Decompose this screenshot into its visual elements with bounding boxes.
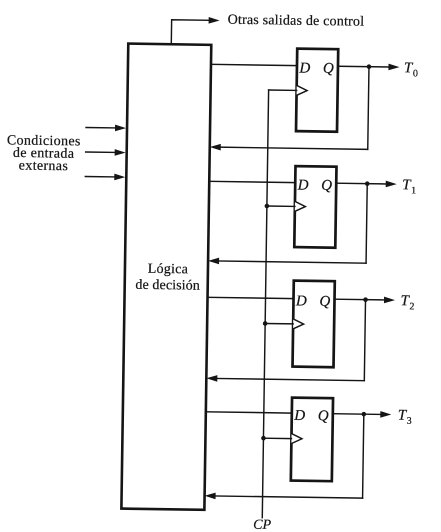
node CP tap FF2 [265,204,270,209]
wire control output elbow [171,20,210,45]
wire D2 input [209,181,295,182]
wire Q4 output [333,413,381,416]
arrowhead feedback 4 [205,492,216,499]
arrowhead T1 [386,181,397,188]
flip-flop FF2 [294,166,336,248]
decision logic block U1 [121,44,211,510]
arrowhead feedback 2 [208,258,219,265]
wire external input 1 [86,126,116,128]
arrowhead T3 [380,411,391,418]
node Q2 junction [365,181,370,186]
node Q4 junction [361,412,366,417]
arrowhead feedback 1 [210,144,221,151]
wire CP to FF2 [267,205,295,207]
svg-text:Q: Q [323,61,334,77]
node CP tap FF3 [263,321,268,326]
wire CP to FF4 [263,437,291,439]
node CP tap FF4 [261,436,266,441]
arrowhead T0 [388,64,399,71]
wire D4 input [206,412,292,413]
arrowhead input 2 [115,149,126,156]
svg-text:Q: Q [321,178,332,194]
wire Q1 output [338,65,389,68]
wire Q3 output [335,298,385,301]
flip-flop FF4 [291,398,333,482]
arrowhead feedback 3 [206,375,217,382]
svg-text:0: 0 [413,68,418,79]
arrowhead input 1 [115,125,126,132]
label Condiciones de entrada externas [6,133,80,174]
svg-text:Otras salidas de control: Otras salidas de control [228,13,365,30]
wire Q2 feedback horizontal [217,261,366,263]
node Q3 junction [363,297,368,302]
wire Q1 feedback vertical [368,67,369,150]
wire Q4 feedback vertical [363,414,364,498]
arrowhead input 3 [114,174,125,181]
label Lógica de decisión [135,262,200,294]
wire external input 2 [86,151,116,153]
arrowhead T2 [384,297,395,304]
svg-text:D: D [293,408,305,424]
arrowhead control output [209,17,220,24]
flip-flop FF3 [293,281,335,368]
wire Q2 output [336,182,386,185]
svg-text:Q: Q [318,408,329,424]
wire Q1 feedback horizontal [219,147,368,149]
wire Q3 feedback horizontal [215,378,364,380]
label T1 [402,177,416,196]
label T0 [404,60,418,79]
svg-text:Lógica: Lógica [148,262,189,278]
svg-text:2: 2 [409,301,414,312]
svg-text:Q: Q [319,294,330,310]
wire D1 input [211,64,297,65]
node Q1 junction [367,64,372,69]
wire external input 3 [85,175,115,177]
wire Q2 feedback vertical [366,184,367,263]
svg-text:D: D [295,293,307,309]
svg-text:externas: externas [19,159,69,175]
svg-text:3: 3 [407,416,412,427]
svg-text:D: D [297,177,309,193]
svg-text:D: D [298,60,310,76]
wire CP to FF3 [265,322,293,324]
flip-flop FF1 [296,49,338,132]
label T2 [400,293,414,312]
svg-text:de decisión: de decisión [135,278,200,294]
wire D3 input [208,297,294,298]
svg-text:CP: CP [253,518,272,532]
label T3 [398,408,412,427]
wire CP to FF1 [269,89,297,91]
wire Q4 feedback horizontal [214,496,363,498]
wire Q3 feedback vertical [364,300,365,381]
clock line CP vertical [262,90,268,518]
svg-text:1: 1 [411,185,416,196]
